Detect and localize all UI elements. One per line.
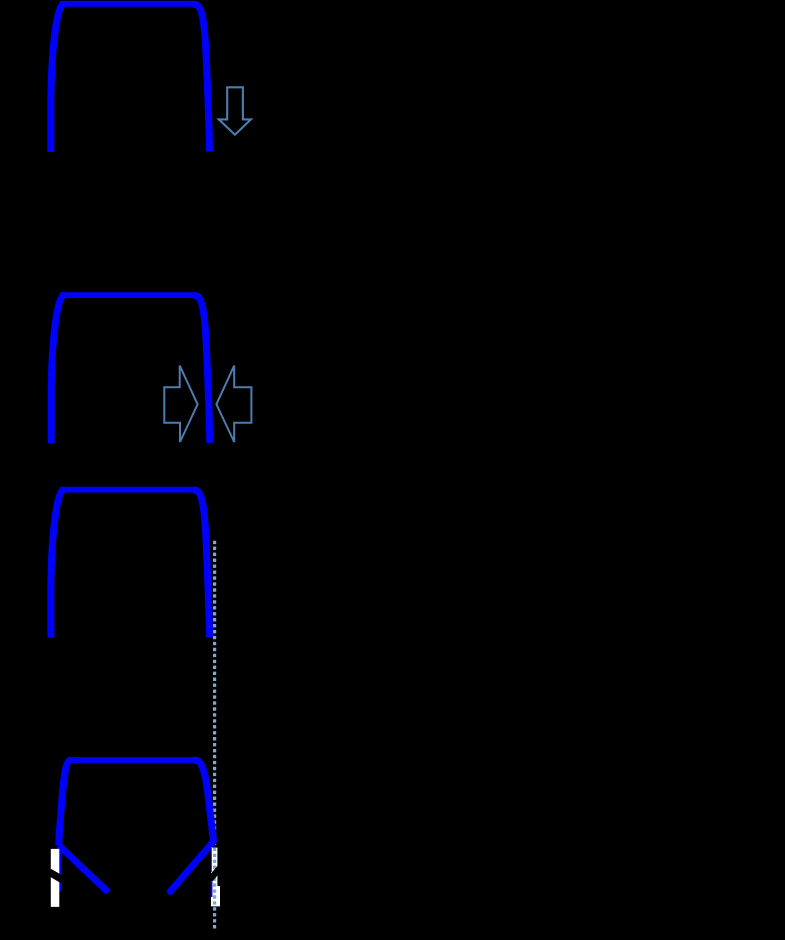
down arrow (vacuum pump suction) — [219, 87, 251, 134]
dotted reference line over break marks — [213, 848, 216, 929]
bell jar stage 2 outline — [51, 295, 210, 443]
compressing arrow left (points right) — [164, 366, 197, 442]
right break mark: white bar (stepped) — [211, 848, 220, 907]
compressing arrow right (points left) — [216, 366, 251, 442]
bell jar stage 3 outline — [51, 490, 210, 638]
collapsed jar: right buckled wall diagonal — [170, 842, 213, 892]
collapsed jar: right wall remnant sliver lower part — [211, 882, 213, 897]
left break mark: black gap slash — [50, 872, 63, 880]
collapsed jar: left buckled wall diagonal — [59, 845, 109, 892]
collapsed jar: left wall remnant sliver (old wall position) — [59, 846, 61, 892]
collapsed jar: right wall remnant sliver upper part — [210, 848, 212, 872]
collapsed jar stage 4: top and upper sides — [59, 760, 214, 846]
right break mark: black gap slash — [210, 868, 220, 880]
dotted reference line lower part (under stage 4 walls) — [213, 541, 216, 845]
left break mark: white bar — [51, 849, 60, 907]
bell jar stage 1 outline — [51, 4, 210, 152]
